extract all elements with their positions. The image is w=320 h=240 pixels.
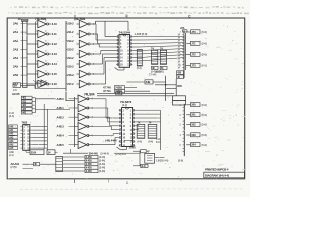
label 2-x under B1 — [13, 88, 17, 92]
svg-text:302: 302 — [191, 123, 196, 127]
connector J8 body — [183, 104, 185, 156]
svg-text:(2-4): (2-4) — [9, 114, 14, 118]
label 17000 — [129, 145, 137, 149]
RP1 footer text — [137, 67, 142, 70]
labels right 6-43 — [156, 138, 161, 144]
inverter U1A — [27, 20, 51, 28]
svg-text:2A1: 2A1 — [13, 30, 19, 34]
cable branch J7-3 — [186, 63, 207, 67]
inverter U1E output label — [52, 62, 58, 66]
svg-text:4-450: 4-450 — [86, 170, 93, 173]
net label A6-A01 — [11, 162, 20, 169]
bottom signal row 2 — [63, 159, 105, 163]
wire U2D to U3 pin 5 — [92, 51, 116, 55]
IC U6 bottom pin — [117, 147, 127, 150]
svg-text:8C5: 8C5 — [177, 84, 182, 88]
horizontal net y88.3 — [166, 87, 177, 89]
svg-text:(5-6): (5-6) — [202, 64, 207, 68]
inverter U5F pin no — [91, 144, 93, 147]
svg-text:304 445: 304 445 — [89, 151, 99, 155]
svg-text:2A6: 2A6 — [13, 73, 19, 77]
wire U3 pin to J7-8 — [132, 58, 183, 61]
cable branch J8-1 — [186, 113, 207, 117]
osc wire vertical — [133, 151, 140, 166]
net label 215-2 — [66, 65, 74, 69]
wire U4 pin 3 out — [32, 133, 47, 135]
svg-text:C7-445: C7-445 — [149, 73, 157, 76]
wire A7 stub — [23, 168, 34, 170]
svg-text:(2-43) 444: (2-43) 444 — [115, 153, 126, 156]
inverter U5A — [75, 95, 91, 103]
wire U4 pin 7 out — [32, 147, 47, 149]
pin label J7-2 — [180, 55, 182, 57]
svg-text:(5-6): (5-6) — [202, 42, 207, 46]
wire U2F to U3 pin 7 — [92, 58, 116, 75]
wire row y93.3 — [97, 92, 174, 94]
bottom border zone tick 2 — [109, 179, 130, 185]
cable branch J8-4 — [186, 143, 207, 147]
svg-text:A4B 3: A4B 3 — [57, 124, 65, 128]
svg-text:74S00: 74S00 — [115, 86, 122, 89]
labels above pullups — [155, 70, 164, 73]
svg-text:1-308 (5-6): 1-308 (5-6) — [135, 32, 148, 36]
pin label J8-3 — [180, 134, 182, 137]
inverter U1C — [27, 40, 51, 48]
label (2-4) — [9, 114, 14, 118]
row ext right A — [115, 153, 126, 156]
net label 2A0 — [13, 22, 23, 26]
sheet top margin faint text line 1 — [10, 7, 243, 8]
inverter U5E — [75, 132, 91, 140]
IC U3 header — [119, 31, 131, 35]
net label A4B 1 — [57, 106, 75, 110]
resistor pack RP3 — [160, 50, 166, 64]
net label 2A6 — [13, 73, 23, 77]
inverter U2E output pin number — [93, 63, 95, 66]
wire U6 out 6 — [135, 129, 139, 131]
svg-text:(4-4): (4-4) — [122, 103, 127, 107]
wire U5D to U6 — [91, 126, 119, 129]
svg-text:(2-44): (2-44) — [99, 170, 105, 173]
svg-text:3-15: 3-15 — [52, 72, 58, 76]
wire U3 pin to J7-2 — [132, 39, 183, 41]
top border zone tick A — [74, 15, 76, 21]
RP footer box 1 — [152, 66, 159, 70]
svg-text:(2-4): (2-4) — [9, 154, 14, 157]
pin label J8-2 — [180, 125, 182, 127]
net label A4B 4 — [57, 134, 75, 138]
inverter U1F — [27, 70, 51, 78]
svg-text:(5-6): (5-6) — [178, 159, 183, 163]
svg-text:(5-6): (5-6) — [202, 133, 207, 137]
connector C8 — [56, 157, 63, 172]
U4 input label 1 — [9, 125, 18, 129]
wire U3 pin to J7-7 — [132, 55, 183, 58]
svg-text:(5-6): (5-6) — [202, 143, 207, 147]
svg-text:(5-6): (5-6) — [202, 30, 207, 34]
svg-text:A4B 4: A4B 4 — [57, 134, 65, 138]
wire under U4 — [26, 149, 58, 153]
label under U4 left — [9, 151, 14, 157]
svg-text:2104: 2104 — [31, 151, 37, 155]
box B1 spare gate label — [13, 83, 21, 88]
svg-text:(4-4): (4-4) — [149, 141, 154, 144]
bottom signal row 4 — [63, 166, 105, 170]
net label 2A2 — [13, 39, 23, 43]
wire A6 row — [23, 162, 56, 166]
svg-text:215-2: 215-2 — [67, 65, 74, 69]
wire U5F to U6 — [91, 138, 119, 145]
svg-text:(4) [300]: (4) [300] — [155, 70, 164, 73]
bus line V47 — [46, 109, 48, 151]
svg-text:3-16: 3-16 — [52, 82, 58, 86]
label 1-308 — [135, 32, 148, 36]
label 2-44 — [9, 111, 14, 115]
wire U3 pin to J7-6 — [132, 52, 183, 54]
wire row y82 — [127, 80, 166, 84]
inverter U1F output label — [52, 72, 58, 76]
cable branch J7-2 — [186, 52, 207, 56]
title block box — [204, 172, 245, 178]
svg-text:A4B: A4B — [146, 81, 151, 84]
bus join jog — [66, 100, 75, 102]
U4 input label 3 — [9, 132, 18, 136]
vertical bus B3 — [74, 97, 76, 147]
connector J8 header box — [173, 96, 186, 105]
RP footer box 2 — [160, 66, 167, 70]
IC U3 74LS244 body — [116, 35, 132, 68]
IC U6 body — [119, 108, 136, 148]
box under U4 a — [30, 150, 44, 155]
svg-text:212-2: 212-2 — [67, 39, 74, 43]
U4 input label 4 — [9, 136, 18, 140]
svg-text:A4B 2: A4B 2 — [57, 115, 65, 119]
spare inverter U1H — [33, 80, 48, 86]
bottom signal row 3 — [63, 162, 105, 166]
IC header 74LS04 group2 — [74, 17, 85, 21]
svg-text:213-2: 213-2 — [67, 47, 74, 51]
inverter U1E — [27, 60, 51, 68]
net label 2A4 — [13, 56, 23, 60]
svg-text:2A0: 2A0 — [13, 22, 19, 26]
bus line V44 — [43, 104, 45, 149]
svg-text:(2-4): (2-4) — [141, 165, 146, 168]
inverter U2A — [77, 20, 93, 28]
resistor pack RP5 — [148, 124, 157, 138]
cable branch J8-0 — [186, 103, 207, 107]
label C7-445 — [149, 73, 157, 76]
wire U4 pin 6 out — [32, 144, 47, 146]
svg-text:J71: J71 — [191, 41, 196, 45]
IC U6 header — [120, 100, 132, 107]
svg-text:3-12: 3-12 — [52, 42, 58, 46]
net label 2A1 — [13, 30, 23, 34]
pin label J7-3 — [180, 65, 182, 68]
connector J7 top cap — [180, 26, 187, 32]
svg-text:J70: J70 — [191, 30, 196, 34]
net label A4B 5 — [57, 143, 75, 147]
inverter U2D — [77, 50, 93, 58]
wire U2A to U3 pin 2 — [92, 24, 116, 40]
net label A4B 3 — [57, 124, 75, 128]
vertical bus net B2 — [65, 21, 67, 101]
svg-text:1A: 1A — [18, 17, 21, 21]
svg-text:(5-6): (5-6) — [202, 103, 207, 107]
top border zone letter C — [188, 15, 191, 19]
inverter U2A output pin number — [93, 23, 95, 26]
resistor box R2 — [21, 100, 35, 104]
svg-text:214-2: 214-2 — [67, 56, 74, 60]
wire U2B to U3 pin 3 — [92, 34, 116, 44]
RP45 header — [138, 121, 152, 125]
osc box small top — [141, 150, 151, 154]
inverter U1D output label — [52, 52, 58, 56]
svg-text:→ (44) 4444: → (44) 4444 — [102, 139, 117, 143]
inverter U5A pin no — [91, 98, 93, 101]
U4 input label 7 — [9, 147, 18, 151]
svg-text:2A2: 2A2 — [13, 39, 19, 43]
osc output wire — [155, 157, 165, 159]
net label A4B 2 — [57, 115, 75, 119]
bottom row A — [63, 149, 140, 155]
label 8C5 — [177, 84, 182, 88]
wire U6 out 4 — [135, 121, 160, 123]
inverter U5B pin no — [91, 107, 93, 110]
cable branch J7-0 — [186, 30, 207, 34]
svg-text:74LS04: 74LS04 — [84, 92, 95, 96]
net label 211-2 — [66, 30, 74, 34]
IC U4 header — [22, 121, 28, 125]
inverter U1A output label — [52, 22, 58, 26]
svg-text:301: 301 — [191, 113, 196, 117]
inverter U2E — [77, 60, 93, 68]
svg-text:3-11: 3-11 — [52, 32, 58, 36]
resistor box R1 — [21, 96, 35, 100]
svg-text:217-2: 217-2 — [67, 82, 74, 86]
horizontal net y84.8 — [155, 84, 176, 86]
svg-text:1.8432 (4-4): 1.8432 (4-4) — [156, 160, 168, 163]
cable branch J7-1 — [186, 41, 207, 45]
net label 2A7 — [13, 82, 23, 86]
net label 217-2 — [66, 82, 74, 86]
inverter U2G output pin number — [93, 83, 95, 86]
IC header 74LS04 group3 — [84, 92, 95, 96]
svg-text:74LS244: 74LS244 — [119, 31, 131, 35]
bottom signal row 5 — [63, 169, 105, 173]
U4 input label 2 — [9, 129, 18, 133]
inverter U2F output pin number — [93, 73, 95, 76]
svg-text:A4B 0: A4B 0 — [57, 97, 65, 101]
junction dot — [165, 84, 167, 86]
wire U2C to U3 pin 4 — [92, 44, 116, 47]
crystal Y1 — [145, 153, 155, 163]
svg-text:J72: J72 — [191, 52, 196, 56]
svg-text:3-14: 3-14 — [52, 62, 58, 66]
inverter U5E pin no — [91, 134, 93, 137]
wire U4 pin 5 out — [32, 140, 47, 142]
enable line group1 — [35, 22, 37, 89]
inverter U5D — [75, 123, 91, 131]
resistor box R5 — [21, 111, 35, 115]
label box row y93 — [116, 92, 122, 96]
sheet top margin faint text line 2 — [8, 13, 249, 14]
stack out wire 2 — [36, 108, 71, 110]
RP45 footer — [138, 141, 154, 144]
wire U3 pin to J7-5 — [132, 49, 183, 51]
resistor pack RP2 — [152, 50, 158, 64]
svg-text:(4-4): (4-4) — [138, 141, 143, 144]
inverter U1B output label — [52, 32, 58, 36]
inverter U2C output pin number — [93, 43, 95, 46]
net label 214-2 — [66, 56, 74, 60]
svg-text:74S0: 74S0 — [22, 121, 28, 125]
net label 213-2 — [66, 47, 74, 51]
IC header 74LS04 group1 — [35, 17, 46, 21]
net label row y91 — [103, 89, 150, 93]
svg-text:A4B 5: A4B 5 — [57, 143, 65, 147]
resistor box R3 — [21, 104, 35, 108]
svg-text:216-2: 216-2 — [67, 22, 74, 26]
RP header text — [151, 47, 163, 51]
svg-text:216-2: 216-2 — [67, 73, 74, 77]
svg-text:300: 300 — [191, 103, 196, 107]
inverter U2G — [77, 80, 93, 88]
inverter U1G — [27, 80, 51, 88]
inverter U2B output pin number — [93, 33, 95, 36]
wire U4 pin 1 out — [32, 126, 47, 128]
box under U4 b — [47, 150, 55, 155]
resistor pack RP1 — [137, 50, 142, 67]
svg-text:(5-6): (5-6) — [202, 53, 207, 57]
svg-text:A4B: A4B — [9, 151, 14, 154]
vertical net V176 — [175, 79, 177, 96]
IC U3 bottom pin — [115, 67, 125, 70]
wire U5B to U6 — [91, 108, 119, 122]
resistor pack RP4 — [137, 124, 145, 138]
connector J1 top label — [18, 17, 21, 21]
stack out wire 1 — [36, 98, 57, 100]
U4 input label 6 — [9, 143, 18, 147]
RP footer text — [151, 70, 161, 73]
net label 216-2 — [66, 22, 74, 26]
resistor box R4 — [21, 107, 35, 111]
pin label J8-0 — [180, 105, 182, 107]
wire U5E to U6 — [91, 134, 119, 136]
svg-text:(5-6): (5-6) — [202, 123, 207, 127]
net label 2A5 — [13, 65, 23, 69]
svg-text:3-10: 3-10 — [52, 22, 58, 26]
osc box small bottom — [141, 164, 148, 168]
vertical net right of RP5 — [160, 110, 162, 150]
wire U6 out 1 — [135, 109, 160, 111]
box 430a — [177, 71, 184, 75]
inverter U1B — [27, 30, 51, 38]
scan speckle noise — [8, 19, 244, 181]
label A2-05 — [12, 92, 20, 96]
svg-text:A2-05: A2-05 — [12, 92, 20, 96]
wire U4 pin 4 out — [32, 136, 47, 138]
title row 1 — [205, 168, 229, 172]
net label 2A3 — [13, 47, 23, 51]
svg-text:(2-44-4): (2-44-4) — [101, 152, 109, 155]
svg-text:47 741: 47 741 — [103, 89, 111, 93]
border frame — [7, 18, 245, 179]
svg-text:211-2: 211-2 — [67, 30, 74, 34]
pin label J7-0 — [180, 32, 182, 34]
wire U3 pin to J7-1 — [132, 36, 183, 38]
pin label J8-1 — [180, 115, 182, 117]
scan noise dashes — [101, 44, 247, 174]
svg-text:74LS04: 74LS04 — [74, 17, 85, 21]
bottom border zone tick — [74, 179, 76, 184]
net label 212-2 — [66, 39, 74, 43]
wire U2G to U3 pin 8 — [92, 61, 116, 84]
wire U6 out 3 — [135, 117, 160, 119]
net label 216-2 — [66, 73, 74, 77]
connector J7 pin numbers — [178, 34, 181, 70]
wire U6 out 5 — [135, 125, 139, 127]
inverter U1D — [27, 50, 51, 58]
osc freq label — [156, 160, 168, 163]
svg-text:304: 304 — [191, 143, 196, 147]
label under J8 — [178, 159, 183, 163]
row arrow y140 — [102, 139, 133, 143]
wire U5A to U6 — [91, 99, 119, 118]
svg-text:47 740: 47 740 — [103, 86, 111, 90]
inverter U5B — [75, 104, 91, 112]
svg-text:2A5: 2A5 — [13, 65, 19, 69]
svg-text:(5-4): (5-4) — [137, 67, 142, 70]
vertical net V165 — [165, 76, 167, 101]
wire U3 pin to J7-4 — [132, 46, 183, 47]
inverter U2F — [77, 70, 93, 78]
inverter U1C output label — [52, 42, 58, 46]
svg-text:303: 303 — [191, 133, 196, 137]
inverter U5C pin no — [91, 116, 93, 119]
bottom scan smudge — [20, 188, 242, 191]
box 430b — [177, 75, 184, 79]
pin label J7-1 — [180, 44, 182, 46]
IC U4 body — [20, 125, 32, 151]
svg-text:(7-7)4: (7-7)4 — [11, 166, 18, 169]
svg-text:DIAGRAM 194 (4-4): DIAGRAM 194 (4-4) — [205, 174, 229, 178]
cable branch J8-2 — [186, 123, 207, 127]
svg-text:74LS04: 74LS04 — [35, 17, 46, 21]
svg-text:8-44: 8-44 — [156, 141, 161, 144]
inverter U2B — [77, 30, 93, 38]
svg-text:17000: 17000 — [129, 145, 137, 149]
wire U6 out 2 — [135, 113, 160, 115]
net label row y87.5 — [103, 86, 137, 90]
svg-text:3-13: 3-13 — [52, 52, 58, 56]
inverter U5D pin no — [91, 125, 93, 128]
wire U5C to U6 — [91, 117, 119, 126]
cable branch J8-3 — [186, 133, 207, 137]
stack collector line — [35, 98, 37, 113]
svg-text:(5-6): (5-6) — [202, 113, 207, 117]
wire U4 pin 2 out — [32, 129, 47, 131]
inverter U1G output label — [52, 82, 58, 86]
wire U3 pin to J7-3 — [132, 42, 183, 45]
connector J1 — [21, 19, 28, 87]
svg-text:A4B 1: A4B 1 — [57, 106, 65, 110]
inverter U5C — [75, 113, 91, 121]
svg-text:2A3: 2A3 — [13, 47, 19, 51]
net label A4B 0 — [57, 97, 75, 101]
connector J7 upper body — [182, 31, 185, 79]
wire row y95.8 — [97, 95, 174, 97]
wire from B1 — [21, 85, 67, 88]
